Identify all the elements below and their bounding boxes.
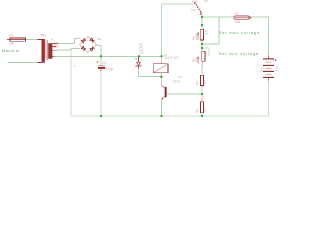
wire bridge output down to C1 (97, 45, 102, 65)
wire secondary tap3 to bridge and bottom rail (58, 49, 81, 51)
svg-text:CB1-P-12V: CB1-P-12V (163, 56, 178, 60)
svg-text:K1A: K1A (192, 0, 198, 4)
svg-text:1: 1 (141, 59, 143, 62)
wire fuse F1 to battery top (251, 17, 268, 56)
svg-text:TIP31: TIP31 (172, 80, 181, 84)
svg-text:1: 1 (74, 64, 76, 68)
transformer TR1 (38, 33, 59, 62)
svg-text:12V: 12V (275, 66, 279, 71)
svg-text:K1: K1 (192, 8, 196, 12)
svg-text:470µ: 470µ (106, 67, 113, 71)
wire base R divider to transistor (167, 93, 202, 95)
fuse F1 (234, 12, 251, 24)
wire flyback diode to relay bottom node (139, 69, 162, 77)
potentiometer R6 (191, 51, 207, 65)
svg-text:Set min voltage: Set min voltage (219, 51, 259, 56)
svg-text:R3: R3 (195, 81, 199, 85)
wire switch junction down to pot1 (201, 17, 203, 29)
wire R2 bottom to rail (201, 113, 203, 116)
svg-text:TR1: TR1 (40, 33, 46, 37)
wire mains top from fuse F2 to transformer primary (26, 39, 42, 41)
transistor T1 (161, 75, 182, 100)
wire relay bottom to collector node (161, 73, 163, 77)
junction emitter ground node (160, 115, 162, 117)
svg-text:B1: B1 (98, 37, 102, 41)
wire pot2 bottom to R3 (201, 61, 203, 65)
svg-text:R2: R2 (195, 108, 199, 112)
svg-text:2K2: 2K2 (202, 107, 206, 112)
fuse F2 (7, 34, 25, 45)
svg-text:470K: 470K (195, 33, 199, 40)
svg-text:G1: G1 (260, 67, 264, 71)
wire emitter down to rail (161, 100, 163, 117)
relay contact switch K1A (192, 0, 208, 17)
junction pot R5 bottom node (201, 43, 203, 45)
svg-text:10K: 10K (202, 80, 206, 85)
wire switch to fuse F1 (202, 16, 234, 18)
svg-text:1A: 1A (10, 42, 15, 46)
battery G1 (260, 56, 279, 81)
svg-text:1P: 1P (204, 0, 208, 3)
wire R2 lead (201, 94, 203, 102)
wire secondary tap1 to bridge (58, 39, 81, 44)
flyback diode D1 (135, 49, 145, 69)
junction R2 ground node (201, 115, 203, 117)
wire mains bottom to transformer primary (8, 61, 39, 63)
capacitor C1 (97, 61, 113, 71)
svg-text:2: 2 (206, 52, 208, 55)
wire bottom rail (71, 115, 268, 117)
wire loop pot1 bottom up to top rail (202, 17, 219, 44)
junction C1 top node (100, 55, 102, 57)
svg-text:12V: 12V (54, 46, 59, 49)
junction D1 node (138, 55, 140, 57)
junction relay bottom collector node (160, 76, 162, 78)
junction relay top node (160, 55, 162, 57)
resistor R3 (195, 75, 206, 85)
junction C1 ground node (100, 115, 102, 117)
svg-text:F1: F1 (235, 12, 239, 16)
wire battery bottom to rail (267, 81, 269, 117)
potentiometer R5 (191, 29, 207, 40)
wire C1 bottom to ground rail (100, 69, 102, 116)
svg-text:T1: T1 (179, 75, 183, 79)
junction base divider node (201, 93, 203, 95)
wire R3 bottom to R2 top (201, 86, 203, 95)
relay coil K1 (153, 53, 178, 78)
svg-text:1: 1 (199, 62, 201, 65)
junction pot R6 top node (201, 47, 203, 49)
bridge rectifier B1 (74, 37, 102, 69)
wire node rail y56 (54, 55, 162, 57)
svg-text:Set max voltage: Set max voltage (219, 30, 260, 35)
connector JP1 circles (139, 44, 142, 54)
svg-text:D1: D1 (141, 49, 145, 53)
svg-text:Mains in: Mains in (2, 48, 20, 53)
svg-text:22K: 22K (195, 57, 199, 62)
svg-text:F2: F2 (10, 34, 14, 38)
svg-text:P: P (197, 15, 199, 17)
junction switch output node (201, 16, 203, 18)
junction pot R5 top node (201, 24, 203, 26)
wire pot1 bottom chain to pot2 (201, 40, 203, 51)
wire pot2 wiper loop (202, 48, 209, 56)
wire top loop to switch (162, 4, 195, 56)
resistor R2 (195, 102, 206, 113)
svg-text:10A: 10A (235, 20, 242, 24)
svg-text:C1: C1 (103, 61, 107, 65)
